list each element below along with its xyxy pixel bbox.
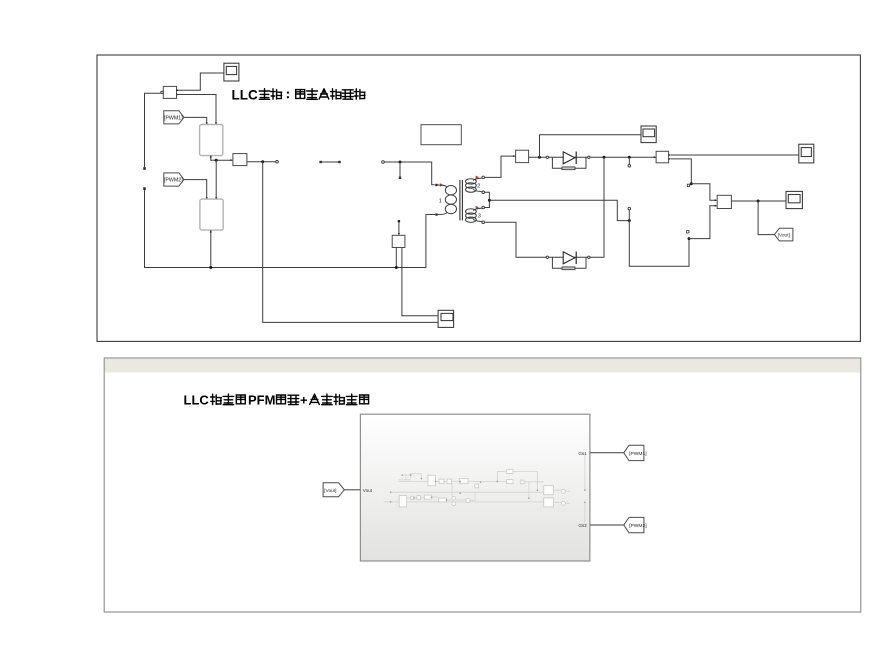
wire Im4 physical to load top node <box>671 159 691 183</box>
svg-text:[PWM1]: [PWM1] <box>629 451 647 457</box>
node load top <box>690 182 693 185</box>
node Vout signal <box>757 200 760 203</box>
From tag PWM2 <box>164 173 184 186</box>
wire Im3 output to Diode1 anode <box>529 156 546 158</box>
node half-bridge midpoint <box>215 159 218 162</box>
voltage measurement block Vm1 <box>230 154 247 166</box>
wire MOSFET1 source to Im2 input <box>211 156 232 161</box>
node return junction <box>628 219 631 222</box>
current measurement block Im3 <box>513 150 528 162</box>
wire return to load bottom <box>629 221 689 267</box>
voltage measurement block Vm2 <box>717 195 731 208</box>
core lines <box>460 180 463 220</box>
svg-text:LLC: LLC <box>184 393 210 408</box>
svg-text:LLC: LLC <box>232 88 258 103</box>
diode D1 <box>546 152 590 170</box>
scope Scope4 <box>641 126 656 143</box>
open square load top <box>687 184 689 186</box>
wire center tap to return node <box>485 192 490 207</box>
wire Vout into subsystem <box>344 489 360 491</box>
svg-text:+: + <box>300 393 308 408</box>
wire D1 cathode bus to Im4 <box>590 156 656 158</box>
node capacitor stub junction <box>628 156 631 159</box>
wire Gs2 to Goto PWM2 <box>590 524 624 526</box>
svg-text:[PWM2]: [PWM2] <box>164 178 183 184</box>
series branch block (small) <box>392 233 405 248</box>
wire Im3 signal to Scope4 <box>540 135 641 158</box>
transformer T1 <box>435 176 484 224</box>
wire Vm1 signal to Scope3 lower input <box>263 162 438 323</box>
bottom panel border <box>104 358 861 612</box>
svg-text:Gs2: Gs2 <box>578 523 587 528</box>
title annotation: LLC converter PFM closed loop + soft start control <box>184 393 369 408</box>
diode D2 <box>546 252 590 270</box>
wire Gs1 to Goto PWM1 <box>590 452 624 454</box>
wire Im1 output to MOSFET1 drain <box>177 95 217 124</box>
From tag [Vout] (bottom panel) <box>323 483 344 497</box>
scope Scope5 <box>799 144 814 163</box>
empty annotation rectangle <box>421 125 461 145</box>
wire winding3 bottom to D2 anode <box>485 222 546 257</box>
scope Scope3 <box>438 310 454 327</box>
open port circle before transformer branch <box>382 161 385 164</box>
svg-text:Vout: Vout <box>363 488 373 493</box>
wire midpoint to MOSFET2 drain <box>215 160 217 198</box>
top panel border <box>97 55 860 341</box>
floating wire segment (resonant branch gap) <box>321 161 340 163</box>
mini inner diagram (decorative) <box>384 453 585 525</box>
secondary winding 2 <box>476 176 479 180</box>
svg-text:2: 2 <box>477 183 480 189</box>
node Vm1 signal branch <box>261 160 264 163</box>
current measurement block Im4 <box>654 151 672 163</box>
wire to transformer primary top <box>384 162 434 185</box>
svg-text:[Vout]: [Vout] <box>778 233 790 239</box>
svg-text:[Vout]: [Vout] <box>324 488 336 494</box>
wire winding2 top to Im3 <box>485 156 515 177</box>
current measurement block Im1 <box>161 86 179 98</box>
open end port circle <box>276 161 279 164</box>
primary winding coil <box>438 185 448 215</box>
svg-text:1: 1 <box>439 199 442 205</box>
red polarity arrow primary <box>440 183 443 187</box>
wire load top to Vmeas + input <box>691 184 716 201</box>
node Im3 scope branch <box>538 156 541 159</box>
junction MOSFET2 source on bus <box>209 266 212 269</box>
svg-text:PFM: PFM <box>248 393 275 408</box>
wire source rail to Im1 input <box>145 93 161 167</box>
wire stub up unconnected <box>398 222 400 235</box>
wire stub down to open port <box>628 157 630 164</box>
Goto tag [Vout] <box>774 228 793 241</box>
wire PWM2 to MOSFET2 gate <box>184 180 207 199</box>
wire cathode down to D2 cathode <box>590 157 604 257</box>
primary terminal squares <box>435 184 437 186</box>
wire branch signal to Scope3 upper input <box>402 248 438 316</box>
wire left rail down + bottom bus + up to transformer primary bottom <box>145 190 435 268</box>
wire PWM1 to MOSFET1 gate <box>184 117 207 123</box>
svg-text:[PWM2]: [PWM2] <box>629 523 647 529</box>
wire branch to bottom bus <box>395 248 397 268</box>
secondary winding 3 <box>476 206 479 210</box>
open square load bottom <box>687 231 689 233</box>
node stub junction <box>399 161 402 164</box>
unconnected end square (rail bottom) <box>143 187 146 190</box>
wire measurement1 to Scope1 <box>177 73 224 90</box>
wire Im4 signal to Scope5 <box>671 154 799 156</box>
Goto tag PWM2 <box>624 517 647 532</box>
wire stub down (unconnected) <box>399 162 401 177</box>
wire stub up to open port <box>628 210 630 219</box>
unconnected end square (rail top) <box>143 167 146 170</box>
node cathode junction <box>603 156 606 159</box>
MOSFET1 <box>200 125 223 156</box>
scope Scope1 (top-left) <box>224 63 239 81</box>
MOSFET2 <box>200 199 223 230</box>
node load bottom <box>688 237 691 240</box>
title annotation: LLC topology half-bridge full-wave rectifier <box>232 88 366 103</box>
wire Vm1 output stub <box>247 161 276 163</box>
svg-text:3: 3 <box>478 214 481 220</box>
wire load bottom to Vmeas - input <box>689 206 717 239</box>
scope Scope2 <box>786 191 802 208</box>
Goto tag PWM1 <box>624 445 647 460</box>
gray header strip <box>105 359 860 373</box>
wire to Goto Vout <box>758 201 774 235</box>
svg-text:Gs1: Gs1 <box>578 451 587 456</box>
wire MOSFET2 source to bottom bus <box>210 230 212 267</box>
wire Vm2 output <box>732 200 786 202</box>
svg-text:[PWM1]: [PWM1] <box>164 116 183 122</box>
From tag PWM1 <box>164 111 184 124</box>
